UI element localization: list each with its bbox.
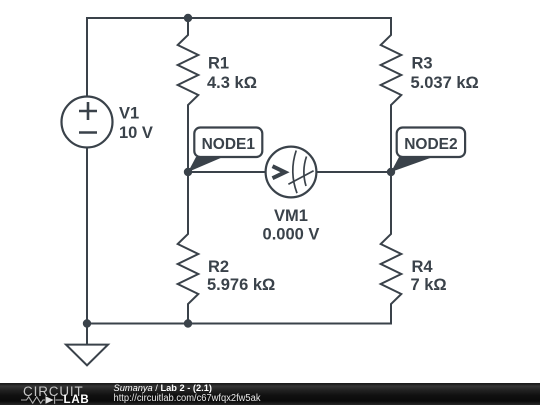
- svg-text:0.000 V: 0.000 V: [263, 226, 320, 244]
- svg-text:R2: R2: [208, 258, 229, 276]
- svg-text:5.976 kΩ: 5.976 kΩ: [207, 276, 275, 294]
- svg-text:5.037 kΩ: 5.037 kΩ: [411, 74, 479, 92]
- svg-text:LAB: LAB: [64, 394, 90, 405]
- svg-text:4.3 kΩ: 4.3 kΩ: [207, 74, 257, 92]
- svg-text:10 V: 10 V: [119, 124, 153, 142]
- svg-text:NODE1: NODE1: [202, 136, 256, 153]
- svg-text:R4: R4: [412, 258, 434, 276]
- svg-text:R1: R1: [208, 55, 229, 73]
- svg-text:VM1: VM1: [274, 207, 308, 225]
- svg-text:NODE2: NODE2: [404, 136, 457, 153]
- svg-text:V1: V1: [119, 105, 139, 123]
- svg-text:7 kΩ: 7 kΩ: [411, 276, 447, 294]
- svg-text:R3: R3: [412, 55, 433, 73]
- svg-text:http://circuitlab.com/c67wfqx2: http://circuitlab.com/c67wfqx2fw5ak: [114, 393, 261, 404]
